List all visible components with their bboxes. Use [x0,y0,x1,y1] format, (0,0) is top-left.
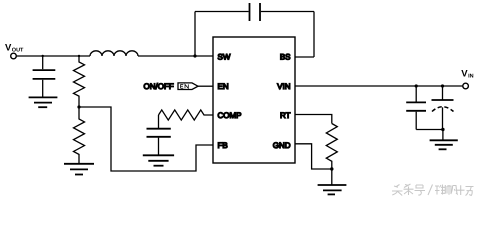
wire FB to divider mid [79,107,213,171]
wire output rail left [16,55,90,57]
wire input caps bottom rail [416,129,443,131]
wire bootstrap left vertical [194,12,196,57]
node VOUT terminal [11,53,17,59]
label VOUT [5,42,24,53]
op-amp U1 (regulator IC box) [213,37,295,163]
svg-text:BS: BS [280,52,291,61]
capacitor C3 (COMP) [147,115,171,155]
svg-text:FB: FB [218,141,228,150]
ground under C3 [143,155,174,165]
wire bootstrap top right [261,11,314,13]
svg-text:IN: IN [468,74,474,80]
node junction Cout [42,55,44,57]
ground under Cout [29,97,58,107]
capacitor Cin1 [406,86,426,130]
svg-text:RT: RT [280,111,291,120]
svg-text:COMP: COMP [218,111,242,120]
wire EN pin [198,85,213,87]
resistor R3 (COMP) [159,110,214,120]
node junction RT-GND [330,167,333,170]
wire GND pin to RT bottom [295,144,332,169]
node junction divider mid [77,105,80,108]
wire RT ground lead [331,169,333,185]
wire output rail right of inductor [138,55,213,57]
svg-text:EN: EN [218,82,229,91]
svg-text:OUT: OUT [12,47,24,53]
node junction divider top [78,55,80,57]
node EN tag [178,83,198,90]
capacitor Cout [33,56,56,97]
ground input [430,140,458,149]
resistor R1 (divider top) [74,56,85,107]
wire input ground lead [442,130,444,141]
ground under RT [318,185,347,194]
wire RT pin stub [295,115,332,124]
svg-text:GND: GND [273,141,291,150]
resistor R2 (divider bottom) [74,107,85,164]
node VIN terminal [463,83,469,89]
wire VIN rail [295,85,463,87]
svg-text:VIN: VIN [277,82,291,91]
watermark [392,184,474,196]
capacitor CBS (bootstrap) [250,3,261,21]
inductor L1 [90,51,138,56]
wire BS pin stub [295,56,314,58]
node junction input ground [441,128,444,131]
resistor R4 (RT) [326,124,337,170]
wire bootstrap right vertical [313,12,315,58]
svg-text:ON/OFF: ON/OFF [144,82,174,91]
wire bootstrap top left [195,11,249,13]
capacitor Cin2 (electrolytic) [432,86,454,130]
label VIN [461,69,473,80]
node junction Cin2 [441,84,444,87]
node junction Cin1 [415,84,418,87]
node junction SW-bootstrap [193,54,196,57]
ground under R2 [64,164,94,175]
svg-text:SW: SW [218,52,231,61]
